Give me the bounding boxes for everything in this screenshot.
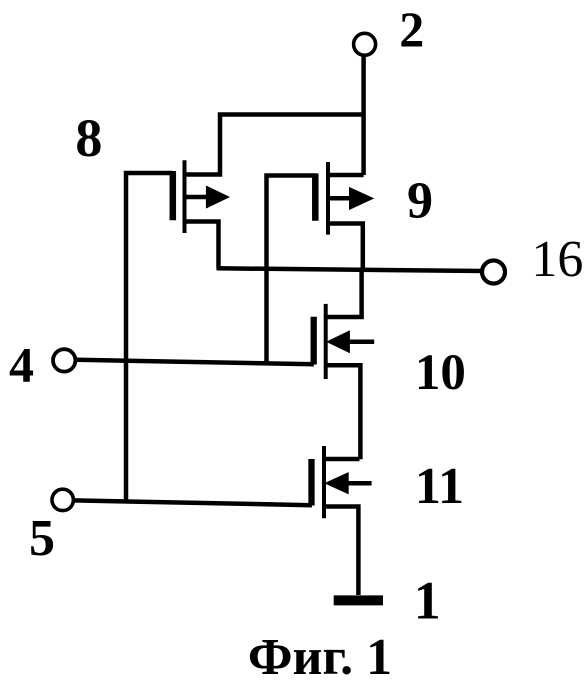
gate bar of 8 [170,171,177,220]
wire: drain of 9 [328,173,364,178]
wire: drain of 11 [324,457,360,462]
node 16 wire [217,268,483,271]
svg-text:Фиг. 1: Фиг. 1 [248,629,392,686]
channel of 9 [326,162,330,235]
gate bar of 10 [311,317,317,365]
wire: terminal 2 down to drain of 9 [361,55,366,175]
terminal 2 (output circle) [354,33,376,55]
transistor 8 (p-channel MOSFET) [173,160,230,233]
svg-text:16: 16 [531,231,583,288]
ground (bar symbol) [334,595,383,605]
svg-text:11: 11 [415,458,464,515]
wire: source of 9 down to node 16 line [328,224,363,270]
terminal 4 (input circle) [53,349,75,371]
channel of 8 [183,160,187,233]
transistor 10 (n-channel MOSFET) [314,304,375,379]
gate bar of 9 [312,173,319,220]
wire: input 4 to gate of 10 [77,360,314,364]
wire: gate of 9 down to input 4 line [267,176,316,363]
transistor 11 (n-channel MOSFET) [312,446,372,518]
gate bar of 11 [308,459,314,506]
svg-text:9: 9 [407,173,433,230]
terminal 5 (input circle) [52,489,73,510]
wire: gate of 8 to left rail down to input 5 line [126,173,173,502]
channel of 10 [324,304,328,379]
svg-text:1: 1 [414,571,441,631]
wire: source of 11 down to ground [324,507,358,596]
substrate arrow of 11 [346,481,372,486]
svg-text:2: 2 [399,1,424,57]
wire: input 5 to gate of 11 [73,500,312,505]
transistor 9 (p-channel MOSFET) [315,162,374,235]
svg-text:10: 10 [415,345,466,401]
svg-text:4: 4 [9,336,34,392]
svg-text:5: 5 [29,510,55,567]
wire: source of 10 down to drain of 11 [326,365,361,459]
substrate arrow of 8 [185,195,210,200]
wire: source of 8 down to node 16 line [185,222,219,269]
wire: drain of 10 up to node 16 line [326,270,362,317]
terminal 16 (output circle) [482,261,505,284]
substrate arrow of 10 [347,339,374,344]
wire: drain bus from node to drain of 8 [185,115,364,175]
channel of 11 [322,446,326,518]
svg-text:8: 8 [75,108,102,168]
substrate arrow of 9 [328,196,352,201]
